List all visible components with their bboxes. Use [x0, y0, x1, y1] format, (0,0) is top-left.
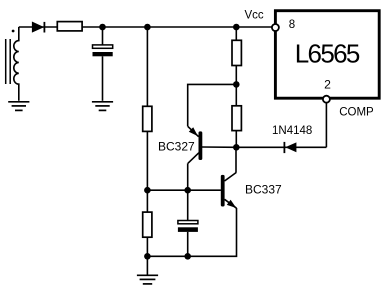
svg-text:L6565: L6565 [295, 39, 360, 69]
node: emitter tap junction [233, 81, 240, 88]
resistor R1 (horizontal) [57, 22, 82, 31]
wire pin2 down [325, 103, 327, 147]
wire [187, 232, 189, 256]
pin 8 terminal [272, 24, 279, 31]
wire BC327 emitter run [188, 84, 237, 126]
wire [146, 237, 148, 256]
node: bottom-left junction [144, 253, 151, 260]
svg-text:Vcc: Vcc [245, 10, 264, 22]
transistor Q2 BC337 (NPN) [221, 173, 237, 209]
IC U1 L6565 [275, 11, 379, 99]
wire ground stem [146, 256, 148, 274]
wire [235, 27, 237, 40]
ground (winding) [8, 102, 29, 111]
svg-text:1N4148: 1N4148 [272, 125, 312, 137]
transformer core [6, 39, 11, 84]
svg-text:BC337: BC337 [245, 182, 282, 196]
ground (C1) [92, 102, 113, 111]
inductor winding L1 [14, 27, 19, 101]
resistor R4 (left lower) [143, 212, 152, 237]
node: Vcc junction [233, 24, 240, 31]
wire BC337 emitter down [148, 208, 237, 256]
resistor R2a (right upper) [232, 40, 241, 65]
ground (bottom) [137, 275, 158, 284]
node: left column mid junction [144, 187, 151, 194]
resistor R2b (right lower) [232, 106, 241, 131]
diode D2 1N4148 [284, 142, 296, 153]
wire COMP run [236, 146, 326, 148]
capacitor C1 (polarized) [93, 45, 113, 56]
wire mid rail [147, 189, 221, 191]
wire cap drop [102, 27, 104, 45]
wire left column upper [146, 27, 148, 106]
node: left column junction top [144, 24, 151, 31]
node: base/collector junction [184, 187, 191, 194]
wire [146, 190, 148, 212]
wire cap2 drop [187, 190, 189, 220]
wire [235, 66, 237, 106]
svg-text:8: 8 [289, 19, 295, 31]
node: COMP drive junction [233, 144, 240, 151]
node: bottom mid junction [184, 253, 191, 260]
wire [146, 131, 148, 190]
pin 2 terminal [323, 96, 330, 103]
svg-text:2: 2 [324, 78, 331, 92]
resistor R3 (left upper) [143, 106, 152, 131]
capacitor C2 (polarized) [178, 221, 198, 232]
svg-text:BC327: BC327 [158, 140, 195, 154]
wire top rail [19, 26, 273, 28]
diode D1 [32, 22, 44, 33]
wire C1 to ground [102, 56, 104, 101]
svg-text:COMP: COMP [339, 106, 374, 118]
transistor Q1 BC327 (PNP) [188, 126, 237, 163]
wire BC337 collector [235, 147, 237, 172]
wire [235, 131, 237, 148]
node: cap tap junction [99, 24, 106, 31]
wire BC327 collector [187, 163, 189, 190]
phase dot [12, 30, 15, 33]
